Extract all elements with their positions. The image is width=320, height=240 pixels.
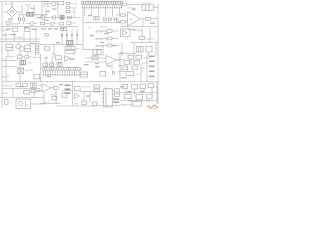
- svg-text:DRV: DRV: [44, 58, 49, 60]
- header U4 pins: [43, 70, 79, 73]
- resistor R21: [96, 30, 118, 33]
- connector J1 pin labels: [82, 7, 122, 8]
- wire vertical x126 low: [125, 88, 127, 94]
- wire vertical x13 low: [12, 88, 14, 97]
- capacitor C14: [112, 71, 114, 75]
- right block row3 box b: [132, 66, 138, 70]
- wire vertical x90 low: [89, 91, 91, 102]
- resistor R14: [139, 36, 145, 39]
- wire horizontal y60 left: [2, 60, 18, 62]
- bridge B2: [18, 68, 24, 74]
- resistor R17: [56, 56, 62, 60]
- resistor network RN1: [35, 43, 39, 56]
- svg-text:OUT B: OUT B: [142, 63, 149, 65]
- svg-text:GND IN: GND IN: [100, 27, 108, 29]
- resistor R3: [59, 22, 63, 25]
- capacitor C11: [137, 46, 144, 52]
- connector J1 pin row: [81, 1, 122, 4]
- transistor Q1: [16, 42, 21, 49]
- diode D14: [75, 94, 80, 99]
- wire horizontal y88.3: [2, 87, 40, 89]
- resistor R4: [67, 22, 77, 25]
- wire vertical x20 low2: [19, 65, 21, 82]
- wire vertical x142: [141, 28, 143, 43]
- diode D4: [104, 17, 107, 21]
- svg-text:AC 230V: AC 230V: [5, 3, 14, 6]
- wire vertical net x22: [21, 5, 23, 15]
- capacitor C3: [44, 1, 48, 4]
- resistor R6: [66, 6, 70, 8]
- capacitor C1: [19, 15, 21, 24]
- wire bridge output: [11, 17, 13, 27]
- resistor R18: [92, 56, 98, 60]
- capacitor C15: [31, 83, 37, 87]
- wire op-amp top feed: [127, 8, 134, 12]
- wire vertical x66: [73, 8, 75, 18]
- wire vertical x148: [148, 52, 150, 56]
- svg-text:OUT D: OUT D: [136, 74, 143, 76]
- wire pin drop x91.6: [91, 9, 93, 16]
- diode D1: [26, 22, 37, 26]
- regulator U8: [13, 28, 18, 31]
- resistor R30: [94, 85, 100, 88]
- wire right rail: [157, 4, 159, 104]
- wire horizontal y42.5 right: [130, 42, 158, 44]
- svg-text:LM358: LM358: [50, 95, 57, 97]
- capacitor C2: [23, 15, 25, 24]
- wire horizontal y91.3: [80, 90, 104, 92]
- capacitor C13: [20, 60, 26, 65]
- bottom right box row1 a: [122, 84, 128, 88]
- resistor R42: [45, 34, 48, 36]
- capacitor C9: [45, 47, 50, 51]
- label smudge group misc values: [3, 8, 155, 102]
- capacitor C7: [122, 3, 142, 6]
- svg-text:C3 100n: C3 100n: [43, 6, 52, 8]
- wire vertical x83 mid: [82, 9, 84, 50]
- wire vertical x20 low: [19, 51, 21, 56]
- wire vertical x122: [121, 43, 123, 57]
- resistor R22: [96, 37, 118, 40]
- svg-text:12V BUS: 12V BUS: [14, 37, 23, 39]
- right block row1 box b: [136, 55, 142, 59]
- bottom right box row2 c: [147, 94, 153, 98]
- resistor R43: [31, 89, 36, 92]
- capacitor C21: [61, 28, 67, 31]
- diode D6: [61, 35, 63, 37]
- wire vertical x54: [53, 45, 55, 59]
- diode D13: [22, 55, 32, 59]
- wire horizontal y100.5 right: [120, 100, 157, 102]
- resistor R36: [132, 102, 142, 107]
- wire vertical x84 low: [83, 91, 85, 101]
- label right of U7: [114, 99, 120, 103]
- wire vertical x72.5: [72, 82, 74, 106]
- wire vertical x44 low: [43, 92, 45, 104]
- wire u5 inputs: [85, 58, 106, 62]
- svg-text:R14 22k: R14 22k: [146, 39, 155, 41]
- diode D3: [52, 16, 56, 20]
- right block row4 box: [126, 72, 134, 76]
- bridge rectifier BR1: [3, 2, 22, 17]
- svg-text:R22 10k: R22 10k: [95, 39, 104, 41]
- resistor R28: [51, 86, 58, 89]
- resistor R16: [34, 75, 40, 79]
- svg-text:PWR LED: PWR LED: [3, 86, 13, 88]
- wire horizontal y66.5 left: [2, 66, 18, 68]
- bottom right box row2 a: [125, 94, 132, 98]
- svg-text:R6 10k: R6 10k: [71, 8, 79, 10]
- svg-text:1N4148: 1N4148: [33, 57, 41, 59]
- header U4 pin labels: [43, 74, 80, 76]
- wire horizontal y97.5: [0, 97, 44, 99]
- svg-text:SIG 12V: SIG 12V: [82, 87, 90, 89]
- right block row1 box a: [128, 55, 134, 59]
- capacitor C20: [57, 63, 62, 67]
- wire vertical x152 low: [151, 88, 153, 95]
- bottom right box row1 d: [148, 84, 154, 88]
- wire vertical x8 low: [7, 51, 9, 56]
- resistor R34: [115, 89, 120, 92]
- capacitor C10: [93, 50, 101, 55]
- svg-text:+5V: +5V: [87, 28, 91, 30]
- wire vertical net x34: [33, 5, 35, 13]
- resistor R27: [5, 100, 8, 105]
- lamp LA1: [48, 2, 58, 6]
- comparator U3: [121, 29, 131, 37]
- resistor R12: [146, 18, 159, 21]
- resistor R41: [50, 63, 54, 66]
- resistor R13: [6, 44, 13, 51]
- wire vertical x156: [155, 43, 157, 57]
- wire vertical x77: [76, 30, 78, 45]
- wire feedback: [120, 19, 158, 27]
- resistor R31: [94, 89, 100, 92]
- wire bus y82: [2, 81, 158, 83]
- wire horizontal y44.5: [40, 44, 83, 46]
- wire vertical net x28: [27, 5, 29, 13]
- header U4 strip: [42, 68, 81, 71]
- right net label col: [149, 56, 155, 77]
- wire vertical x24: [23, 33, 25, 42]
- resistor R5: [66, 2, 70, 4]
- bottom right box row1 b: [132, 84, 138, 89]
- diode D7: [66, 35, 68, 37]
- resistor R10: [116, 14, 128, 16]
- wire horizontal y65.5: [118, 64, 122, 66]
- wire horizontal y59.5: [118, 58, 124, 60]
- wire horizontal y104 left: [31, 103, 47, 105]
- wire vertical x36: [35, 27, 37, 42]
- IC U7: [102, 89, 115, 108]
- wire horizontal y71.5: [118, 70, 126, 72]
- op-amp U5: [106, 56, 117, 65]
- wire pin drop x84.7: [84, 9, 86, 16]
- wire vertical x131: [130, 59, 132, 66]
- right block row2 box b: [134, 60, 140, 64]
- capacitor C5: [60, 16, 64, 20]
- wire vertical x141: [140, 64, 142, 82]
- resistor R29: [75, 86, 81, 90]
- wire vertical x58: [57, 5, 59, 18]
- wire vertical x144 low: [143, 88, 145, 94]
- wire vertical x120b: [119, 54, 121, 82]
- wire vertical x40 mid: [40, 54, 42, 82]
- svg-text:R21 10k: R21 10k: [95, 32, 104, 34]
- resistor R33: [93, 102, 97, 106]
- wire vertical x157 low: [156, 82, 158, 104]
- svg-text:RL1 12V: RL1 12V: [143, 3, 152, 5]
- resistor R20: [100, 72, 106, 77]
- wire vertical x62: [61, 31, 63, 45]
- capacitor C16: [52, 97, 57, 100]
- wire vertical x72: [71, 30, 73, 45]
- bottom right box row1 c: [140, 84, 146, 88]
- wire horizontal y49.5: [83, 49, 103, 51]
- wire vertical x14: [13, 33, 15, 42]
- label col x66: [65, 85, 71, 94]
- wire horizontal y53.5 right: [118, 53, 136, 55]
- diode D5: [109, 17, 112, 21]
- right block row3 box a: [122, 66, 128, 70]
- wire horizontal y90.3 mid: [62, 89, 73, 91]
- connector J1 pins: [82, 4, 121, 6]
- op-amp U6: [38, 84, 51, 92]
- svg-text:GND: GND: [74, 104, 79, 106]
- wire vertical x147: [146, 54, 148, 82]
- wire pin drop x105.4: [104, 9, 106, 17]
- wire op-amp output: [141, 18, 146, 20]
- wire vertical x103 low: [102, 45, 104, 57]
- svg-text:R23 4k7: R23 4k7: [95, 46, 104, 48]
- capacitor C6: [113, 17, 119, 21]
- transformer T1: [27, 13, 35, 17]
- svg-text:AUX 9V: AUX 9V: [2, 76, 10, 79]
- resistor R7: [66, 10, 70, 12]
- resistor R26: [24, 90, 30, 94]
- wire left rail: [1, 1, 3, 108]
- resistor pack RP3: [65, 50, 75, 53]
- resistor R40: [43, 63, 48, 66]
- wire vertical x52 mid: [51, 56, 53, 68]
- wire horizontal y17.5: [40, 17, 80, 19]
- bottom right box row2 b: [136, 94, 143, 99]
- relay RL1: [142, 5, 158, 10]
- wire vertical x34b: [33, 88, 35, 97]
- resistor R32: [82, 101, 86, 105]
- crystal X1: [67, 41, 73, 45]
- resistor R15: [18, 55, 22, 59]
- wire vertical x30: [29, 33, 31, 42]
- capacitor C8: [25, 45, 31, 52]
- wire vertical x95 low: [94, 55, 96, 58]
- resistor R9: [94, 17, 100, 20]
- wire vertical x67: [66, 30, 68, 45]
- wire horizontal y14.5: [18, 14, 48, 16]
- switch SW1: [25, 28, 31, 31]
- capacitor C4: [41, 16, 44, 20]
- svg-text:B2 W04: B2 W04: [26, 70, 34, 72]
- wire horizontal y22.5 right: [83, 22, 120, 24]
- resistor R1: [6, 22, 10, 27]
- wire vertical x6 low: [5, 58, 7, 83]
- wire vertical x150: [149, 28, 151, 43]
- resistor R25: [23, 84, 28, 87]
- wire u5 out: [112, 60, 120, 70]
- wire vertical x46 mid: [45, 56, 47, 68]
- wire top rail: [0, 1, 58, 3]
- varistor VR1: [58, 1, 64, 4]
- resistor pack RP2: [65, 47, 75, 50]
- wire vertical x134 low: [134, 89, 136, 94]
- wire vertical x42 top: [41, 0, 43, 18]
- label row y29: [41, 28, 58, 29]
- resistor R2: [41, 22, 49, 24]
- wire pin drop x119.2: [118, 9, 120, 17]
- wire horizontal y105.5 right: [95, 105, 120, 107]
- resistor R35: [115, 93, 120, 96]
- label SW1: [6, 29, 37, 30]
- resistor R8: [68, 16, 71, 18]
- svg-text:R1 4k7: R1 4k7: [13, 24, 20, 26]
- wire horizontal y92.6 right: [120, 92, 158, 94]
- wire vertical x28 low: [27, 52, 29, 56]
- capacitor C12: [146, 46, 152, 52]
- wire horizontal y39: [0, 38, 40, 40]
- wire pin drop x98.5: [98, 9, 100, 16]
- wire vertical x46: [45, 8, 47, 18]
- logo signature: [147, 105, 159, 109]
- resistor R19: [81, 72, 88, 77]
- wire bus y41.5: [0, 41, 40, 43]
- resistor R23: [96, 44, 118, 47]
- resistor R24: [16, 84, 21, 87]
- wire vertical x134: [133, 43, 135, 57]
- relay K1: [16, 99, 31, 109]
- op-amp U2: [128, 12, 141, 27]
- transistor Q2: [19, 47, 24, 52]
- diode D9: [76, 35, 78, 37]
- capacitor C17: [62, 93, 67, 98]
- wire horizontal y26.5: [2, 26, 78, 28]
- svg-text:OUT C: OUT C: [140, 68, 147, 70]
- resistor R11: [116, 21, 128, 23]
- buffer U9: [65, 56, 76, 62]
- right block row2 box a: [124, 60, 130, 64]
- diode D2: [48, 22, 57, 26]
- diode D8: [71, 35, 73, 37]
- svg-text:R7 1k: R7 1k: [71, 12, 77, 14]
- svg-text:R5 10k: R5 10k: [71, 4, 79, 6]
- wire vertical x56 low: [55, 89, 57, 103]
- wire vertical x6: [5, 33, 7, 42]
- wire horizontal y106 mid: [56, 105, 95, 107]
- svg-text:SENSOR: SENSOR: [6, 57, 15, 59]
- svg-text:F2 1A: F2 1A: [2, 92, 8, 95]
- wire horizontal y103.5: [40, 103, 60, 105]
- wire pin drop x112.3: [111, 9, 113, 17]
